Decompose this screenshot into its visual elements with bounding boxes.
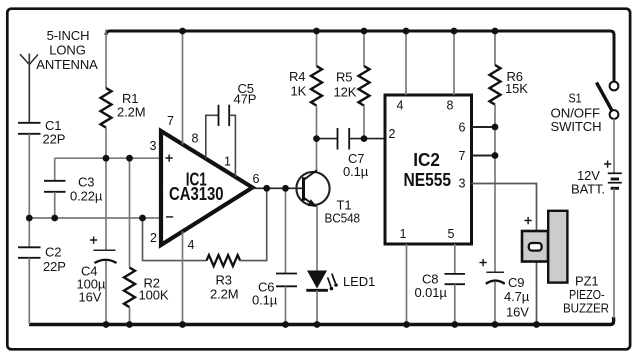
wire C5 to pin1 [229,115,235,177]
junction R5 / C7 / IC2 pin2 [361,135,368,142]
capacitor C6 [285,188,287,273]
svg-text:0.22µ: 0.22µ [70,189,103,204]
svg-text:4: 4 [188,238,195,252]
svg-text:CA3130: CA3130 [169,184,224,204]
junction ground rail / LED1 [314,321,321,328]
svg-text:15K: 15K [505,81,528,96]
switch S1 [610,82,619,91]
svg-text:ANTENNA: ANTENNA [36,57,98,72]
svg-text:R4: R4 [289,69,305,84]
capacitor C4 electrolytic [105,158,107,250]
wire pin8 top [453,31,455,95]
junction ground rail / IC1 pin4 [179,321,186,328]
svg-text:3: 3 [150,139,157,153]
svg-text:−: − [166,209,174,225]
wire pin4 top [405,31,407,95]
resistor R4 [316,31,318,66]
svg-text:SWITCH: SWITCH [551,119,602,134]
svg-text:C2: C2 [45,245,61,260]
wire pin7 [472,155,496,157]
resistor R2 [129,158,131,267]
junction R6 / IC2 pin6 [492,124,499,131]
svg-text:7: 7 [459,149,466,163]
svg-text:1: 1 [224,155,231,169]
svg-text:16V: 16V [79,290,102,305]
wire pin3 to piezo [472,184,537,325]
transistor T1 [296,172,329,205]
wire output pin6 [253,187,303,189]
svg-text:C3: C3 [78,175,94,190]
wire pin1 to ground [406,244,408,325]
wire pin6 [472,126,496,128]
wire pin3 line [55,157,161,159]
svg-text:2.2M: 2.2M [117,105,146,120]
svg-text:R3: R3 [216,273,232,288]
svg-text:2.2M: 2.2M [210,287,239,302]
junction R6 / IC2 pin7 [492,152,499,159]
junction ground rail / IC2 pin1 [403,321,410,328]
junction ground rail / C4 [103,321,110,328]
svg-text:8: 8 [192,132,199,146]
piezo buzzer PZ1 [522,231,548,262]
svg-text:+: + [479,254,487,270]
junction V+ rail / IC1 pin7 [179,28,186,35]
svg-text:BC548: BC548 [325,211,361,226]
svg-text:+: + [90,232,98,248]
capacitor C8 [454,244,456,274]
junction ground rail / R2 [126,321,133,328]
battery B1 [608,173,622,188]
svg-text:2: 2 [389,127,396,141]
wire pin4 to ground [182,232,184,325]
wire bottom rail ground [29,317,614,325]
IC2 NE555 box [385,95,472,244]
junction ground rail / C6 [282,321,289,328]
junction V+ rail / R6 [492,28,499,35]
svg-text:47P: 47P [234,92,257,107]
LED LED1 [307,271,327,289]
wire pin8 to C5 [206,115,219,159]
svg-text:S1: S1 [569,91,582,106]
wire feedback branch [143,218,207,261]
junction node pin3 / R1 / C4 [103,155,110,162]
svg-text:7: 7 [167,114,174,128]
svg-text:C9: C9 [508,275,524,290]
wire emitter to LED [316,206,318,271]
svg-text:+: + [524,212,532,228]
junction IC1 output / R3 [263,185,270,192]
wire pin2 line [29,217,161,219]
svg-text:LONG: LONG [49,43,85,58]
svg-text:22P: 22P [43,132,66,147]
junction V+ rail / IC2 pin4 [403,28,410,35]
resistor R1 [105,30,107,89]
resistor R3 [207,255,241,266]
resistor R6 [494,31,496,65]
svg-text:3: 3 [459,177,466,191]
junction node pin2 / R3 feedback [139,215,146,222]
wire pin7 [182,31,184,145]
capacitor C9 electrolytic [486,271,504,273]
wire C1 to node A [28,134,30,218]
svg-text:LED1: LED1 [343,274,375,289]
svg-text:R5: R5 [336,70,352,85]
svg-text:0.1µ: 0.1µ [343,164,369,179]
junction V+ rail / R5 [361,28,368,35]
svg-text:BATT.: BATT. [571,182,605,197]
antenna [20,54,38,123]
junction node A antenna / C1 / C2 [26,215,33,222]
junction ground rail / C9 [492,321,499,328]
svg-text:6: 6 [253,172,260,186]
svg-text:22P: 22P [43,259,66,274]
junction R4 / C7 / T1 collector [313,135,320,142]
junction node pin2 / C3 [51,215,58,222]
pin labels [150,99,466,253]
wire top rail V+ [106,31,614,81]
svg-text:100K: 100K [139,288,169,303]
svg-text:5: 5 [448,227,455,241]
svg-text:1: 1 [400,227,407,241]
svg-text:+: + [604,156,612,172]
svg-text:IC2: IC2 [413,150,440,170]
junction V+ rail / R4 [313,28,320,35]
svg-text:NE555: NE555 [404,170,452,190]
capacitor C7 [317,138,338,140]
junction node pin3 / R2 [126,155,133,162]
capacitor C1 [18,123,41,134]
svg-text:8: 8 [447,99,454,113]
svg-text:+: + [165,150,173,166]
svg-text:16V: 16V [506,305,529,320]
svg-text:BUZZER: BUZZER [563,301,609,316]
svg-text:4: 4 [397,99,404,113]
svg-text:1K: 1K [291,84,307,99]
capacitor C3 [54,158,56,181]
capacitor C2 [28,218,30,247]
wire collector [316,139,318,170]
IC name labels [169,150,451,204]
svg-text:12K: 12K [334,85,357,100]
junction IC1 output / C6 [282,185,289,192]
op-amp IC1 [161,131,253,245]
svg-text:0.1µ: 0.1µ [252,293,278,308]
svg-text:4.7µ: 4.7µ [504,289,530,304]
svg-text:0.01µ: 0.01µ [415,285,448,300]
resistor R5 [363,31,365,66]
capacitor C5 [219,105,230,126]
junction V+ rail / IC2 pin8 [451,28,458,35]
svg-text:6: 6 [459,121,466,135]
junction ground rail / PZ1 [533,321,540,328]
svg-text:5-INCH: 5-INCH [47,28,90,43]
junction ground rail / C8 [451,321,458,328]
svg-text:2: 2 [150,231,157,245]
